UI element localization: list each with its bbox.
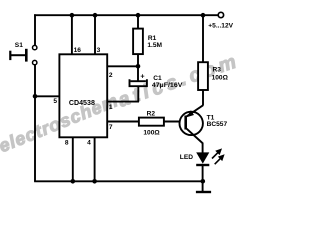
capacitor C1 — [130, 72, 184, 102]
supply terminal +5...12V — [218, 12, 223, 17]
wire pin 2 stub — [107, 65, 139, 67]
svg-text:7: 7 — [109, 124, 113, 131]
op-amp U1 CD4538 IC box — [59, 54, 107, 137]
svg-text:4: 4 — [87, 140, 91, 147]
wire left vertical lower (S1 to bottom rail) — [34, 65, 36, 181]
wire pin 4 — [94, 137, 96, 181]
svg-text:47µF/16V: 47µF/16V — [152, 82, 183, 89]
svg-text:2: 2 — [109, 72, 113, 79]
LED arrows — [212, 150, 223, 165]
svg-text:C1: C1 — [153, 75, 162, 82]
svg-text:+: + — [140, 72, 144, 81]
svg-text:R2: R2 — [147, 111, 156, 118]
node pin3 rail junction — [93, 13, 98, 18]
svg-text:BC557: BC557 — [207, 121, 228, 128]
resistor R3 — [198, 15, 229, 105]
wire pin 8 — [72, 137, 74, 181]
resistor R2 — [139, 111, 186, 137]
LED D1 — [180, 150, 224, 165]
node LED bottom rail junction — [201, 179, 206, 184]
svg-text:CD4538: CD4538 — [69, 98, 95, 107]
wire pin 7 stub — [107, 121, 139, 123]
svg-text:5: 5 — [53, 98, 57, 105]
svg-text:LED: LED — [180, 154, 193, 161]
wire collector to LED — [202, 143, 204, 154]
wire pin 1 stub — [107, 101, 139, 103]
node R3 top rail junction — [201, 13, 206, 18]
svg-text:100Ω: 100Ω — [143, 129, 160, 136]
node pin8 bottom rail junction — [71, 179, 76, 184]
node R1/C1/pin2 junction — [136, 64, 141, 69]
svg-text:100Ω: 100Ω — [212, 75, 229, 82]
node R1 top rail junction — [136, 13, 141, 18]
svg-text:1.5M: 1.5M — [147, 42, 162, 49]
node pin16 rail junction — [70, 13, 75, 18]
watermark electroschematics.com — [0, 51, 239, 156]
node pin4 bottom rail junction — [92, 179, 97, 184]
wire pin 16 — [71, 15, 73, 54]
svg-text:3: 3 — [97, 47, 101, 54]
svg-text:S1: S1 — [15, 42, 23, 49]
svg-text:+5...12V: +5...12V — [208, 23, 233, 30]
svg-text:8: 8 — [65, 140, 69, 147]
wire left vertical upper (rail to S1) — [34, 14, 36, 45]
ground terminal bar — [196, 191, 211, 193]
svg-text:16: 16 — [74, 47, 82, 54]
resistor R1 — [133, 15, 162, 81]
wire LED cathode to bottom rail — [202, 165, 204, 192]
svg-text:1: 1 — [109, 104, 113, 111]
svg-text:R3: R3 — [213, 66, 222, 73]
wire pin 3 — [94, 15, 96, 54]
node pin5 junction on left wire — [33, 94, 38, 99]
wire bottom rail — [34, 180, 203, 182]
transistor Q1 T1 BC557 — [180, 105, 228, 143]
svg-text:R1: R1 — [148, 35, 157, 42]
wire top rail — [34, 14, 218, 16]
switch S1 — [10, 42, 37, 65]
wire pin 5 stub — [34, 95, 59, 97]
